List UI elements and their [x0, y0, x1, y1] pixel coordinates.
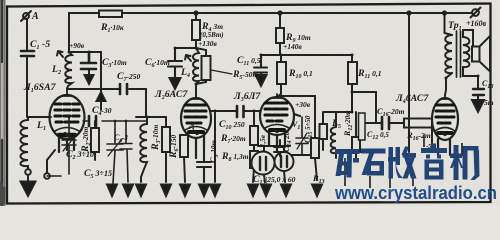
scan edge shadow: [0, 0, 5, 206]
capacitor C1: [21, 51, 34, 56]
tube L1 top cap: [63, 88, 71, 96]
antenna terminal A: [23, 13, 29, 19]
capacitor C3: [81, 52, 96, 69]
transformer Tr1 core: [457, 31, 461, 77]
ground R8: [248, 185, 258, 197]
resistor R13: [315, 158, 317, 180]
ground L3: [140, 177, 142, 182]
capacitor C2 variable: [47, 117, 76, 176]
resistor R14: [320, 124, 328, 139]
wire to C16: [352, 92, 404, 123]
resistor R1: [99, 11, 122, 18]
oscillator grid wire: [136, 116, 166, 118]
tube L1 grid bars: [55, 104, 79, 122]
tube L4 cathode arc: [435, 128, 455, 132]
resistor R7: [253, 111, 255, 151]
tube L1 heater: [63, 133, 69, 136]
node dot x409: [407, 11, 410, 14]
tube L1 stem bar: [59, 133, 75, 138]
wire R16 to tube and bias drop: [431, 123, 433, 152]
char ji: [450, 145, 480, 180]
coil L1: [21, 117, 29, 170]
node dot R9 top: [278, 11, 281, 14]
capacitor C8: [197, 148, 211, 182]
grid wire L1: [28, 116, 51, 118]
terminal +160v: [472, 9, 479, 16]
capacitor C12: [359, 113, 366, 140]
transformer feed wires: [445, 13, 453, 95]
wire C10: [215, 110, 260, 112]
resistor R2: [94, 121, 96, 160]
ground padder: [123, 185, 133, 197]
tube L4 envelope: [432, 98, 458, 140]
tube L4 stem bar: [438, 131, 452, 135]
capacitor C5 variable: [107, 121, 123, 183]
tube L2 top cap: [192, 95, 200, 99]
tube L3 envelope: [260, 97, 294, 135]
tube L2 pins: [188, 134, 204, 158]
screen feed wire: [69, 52, 101, 110]
tube L1 cathode arc: [55, 128, 79, 132]
arrow up on screen wire: [97, 92, 106, 101]
junction circle 2: [44, 173, 50, 179]
detector wire: [292, 154, 317, 156]
electrolytic C13b: [284, 146, 285, 182]
ground L1: [27, 175, 29, 181]
wire to tube L2 cap: [195, 84, 197, 97]
tube L4 pins: [438, 139, 450, 155]
resistor R12: [355, 112, 357, 160]
coil L3: [140, 117, 147, 177]
capacitor C18: [473, 89, 484, 95]
ground C11: [256, 75, 267, 86]
resistor R10: [277, 55, 281, 97]
tube L3 pins: [260, 111, 300, 151]
node dot R4 top: [194, 11, 197, 14]
tube L1 envelope: [50, 95, 85, 139]
ground junction circle: [25, 169, 31, 175]
tube L2 heater: [193, 132, 199, 135]
char shi: [361, 149, 386, 176]
top bus wire: [69, 12, 472, 14]
ground R3: [161, 185, 171, 197]
capacitor C16: [382, 117, 389, 129]
stray schematic strokes behind watermark: [345, 135, 462, 188]
tube L3 heater: [273, 130, 279, 133]
bleeder wire: [281, 96, 315, 138]
ground C18: [472, 100, 484, 112]
tube L3 top cap: [273, 94, 281, 98]
tube L2 envelope: [181, 98, 211, 138]
B+ drop wire: [408, 13, 410, 152]
ground C8: [199, 185, 209, 197]
tube L2 grid bars: [185, 105, 206, 123]
wire +90v drop: [68, 13, 70, 52]
node dot x433: [443, 11, 446, 14]
cathode wire: [258, 145, 290, 147]
capacitor padder C6-3: [120, 121, 132, 182]
ground R13: [312, 185, 322, 197]
speaker wires: [463, 30, 478, 88]
ground R6: [180, 185, 190, 197]
ground C13a: [261, 185, 271, 197]
coil L4: [193, 48, 199, 84]
wire C7 coupling: [67, 89, 146, 117]
capacitor C11: [254, 55, 267, 77]
arrow down from C3: [88, 69, 90, 76]
tube L1 bottom pins: [59, 137, 74, 152]
coil L5: [331, 127, 336, 158]
paper noise overlay: [0, 0, 1, 1]
ground C9: [210, 185, 220, 197]
tube L4 grid bars: [436, 105, 454, 123]
capacitor C7: [120, 84, 127, 94]
resistor R16: [404, 119, 432, 128]
antenna wire: [26, 19, 28, 50]
scan edge artifact left: [1, 0, 3, 62]
resistor R11: [351, 55, 353, 108]
resistor R4: [195, 13, 197, 48]
char kuang: [335, 149, 360, 178]
tube L4 top cap: [441, 95, 449, 99]
ground C6: [170, 78, 181, 89]
tube L2 stem bar: [189, 130, 203, 134]
watermark chinese characters: [335, 135, 480, 188]
capacitor C15 variable: [296, 117, 308, 155]
AVC bus wire: [261, 54, 352, 56]
ground C5: [107, 185, 117, 197]
transformer Tr1 secondary: [463, 37, 469, 67]
transformer Tr1 primary: [445, 35, 452, 73]
resistor R5: [196, 48, 206, 84]
tube L2 cathode arc: [185, 127, 207, 131]
IF wire to L5: [323, 84, 352, 127]
capacitor C14: [274, 140, 285, 156]
capacitor C6: [168, 48, 196, 78]
coil L2 arrow: [57, 51, 63, 57]
resistor R3: [165, 117, 167, 182]
resistor R8: [250, 151, 258, 168]
speaker: [472, 47, 480, 62]
tube L3 stem bar: [270, 128, 284, 132]
wire L2 anode: [210, 111, 215, 182]
coil L2: [65, 52, 72, 89]
ground C13b: [281, 185, 291, 197]
coil L4 arrow: [185, 55, 191, 61]
tube L4 heater: [441, 133, 447, 136]
capacitor C10: [237, 106, 244, 117]
resistor R6: [185, 134, 188, 135]
char shou: [388, 147, 417, 179]
char yin: [421, 144, 447, 180]
tube L3 cathode arc: [265, 125, 289, 129]
tube L3 grid bars: [265, 103, 287, 121]
electrolytic C13a: [264, 146, 265, 182]
resistor R9: [279, 13, 281, 55]
capacitor C4: [83, 120, 147, 122]
